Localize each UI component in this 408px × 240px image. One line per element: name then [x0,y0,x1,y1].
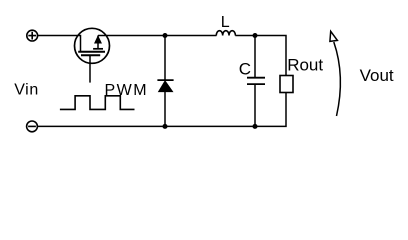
node: diode bottom junction [163,124,168,129]
resistor Rout [280,76,293,93]
transistor Q1 (MOSFET in circle) [75,28,110,82]
wire: top rail, + terminal to transistor [38,35,81,37]
svg-text:L: L [221,14,230,31]
wire: cap top lead [254,36,256,78]
node: capacitor top junction [253,33,258,38]
wire: bottom rail from - terminal to Rout bottom [38,93,287,127]
wire: cap bottom lead [254,85,256,127]
svg-text:Rout: Rout [287,55,323,74]
node: diode top junction [163,33,168,38]
svg-text:PWM: PWM [105,82,149,99]
capacitor C [247,78,265,84]
positive input terminal [27,30,38,41]
wire: top rail, transistor to inductor [98,35,217,37]
wire: top rail, inductor to R corner, down to Rout [235,36,286,76]
inductor L [216,31,235,36]
PWM square wave [60,96,135,110]
negative input terminal [27,121,38,132]
svg-text:Vin: Vin [14,82,39,99]
node: capacitor bottom junction [253,124,258,129]
Vout arrow [330,31,341,116]
svg-text:Vout: Vout [360,66,394,85]
diode D1 [157,36,173,127]
svg-text:C: C [239,59,251,78]
